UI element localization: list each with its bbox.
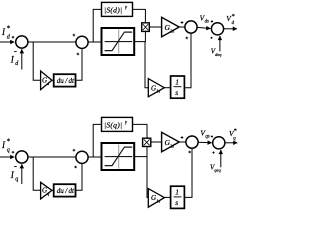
wire Vq* output arrow [225,142,237,144]
wire tap up to |S(d)| block [93,9,101,42]
wire Vdeq arrow into S4d [219,36,221,51]
block du/dt (q) [54,184,76,196]
svg-text:s: s [175,88,178,97]
wire saturation output to multiplier [134,31,145,41]
wire Gd to du/dt [52,79,54,81]
wire G2d to S3d [179,26,185,28]
gain G2q triangle [162,132,180,152]
minus sign at summing junction S1q [14,166,17,168]
svg-text:*: * [232,13,235,20]
wire saturation output to multiplier (q) [134,147,147,157]
wire multiplier to G2d triangle [149,26,161,28]
wire S3q to S4q arrow [198,141,211,143]
plus sign at summing junction S1q [12,151,15,154]
plus sign top-left of S2q [73,149,76,152]
minus sign at summing junction S1d [14,51,17,53]
svg-text:1: 1 [175,78,179,87]
wire S2q to saturation block [88,156,101,158]
wire G1q to integrator [164,196,170,198]
summing junction S4q [213,137,225,149]
svg-text:s: s [175,198,178,207]
svg-text:deq: deq [215,52,222,57]
wire Id* input arrow [0,41,14,43]
node Iq label [10,170,18,183]
svg-text:du / dt: du / dt [57,77,75,85]
svg-text:*: * [7,138,11,146]
wire tap down to Gd triangle [33,42,40,80]
plus sign bottom of S2q [74,166,77,169]
node Vqeq label [210,163,222,172]
plus sign bottom-left of S4d [210,37,212,39]
svg-text:q: q [15,177,18,183]
svg-text:1: 1 [175,188,179,197]
plus sign at summing junction S1d [12,36,15,39]
wire Vqeq arrow into S4q [220,150,222,167]
svg-text:*: * [234,128,237,135]
node Vq* output label [229,128,237,142]
summing junction S2d [76,36,88,48]
svg-text:|S(d)|: |S(d)| [104,5,122,14]
wire tap up to |S(q)| block [93,124,101,157]
gain G1d triangle [148,79,164,97]
plus sign left of S3d [181,21,184,24]
node Vdeq label [211,48,222,57]
summing junction S3d [185,21,197,33]
svg-text:2s: 2s [170,143,174,148]
gain G1q triangle [148,189,164,208]
multiplier X box (q) [143,138,151,146]
wire du/dt up to S2q [76,164,83,191]
svg-text:qs: qs [205,135,209,140]
block integrator 1/s (q) [171,186,185,208]
svg-text:du / dt: du / dt [57,187,75,195]
node Vds label [200,13,209,24]
plus sign top-left of S4q [211,135,213,137]
wire integrator up to S3d [184,33,191,87]
node Iq* label [1,138,11,154]
plus sign bottom of S3q [188,151,191,154]
wire G1d to integrator [164,87,170,89]
wire Iq* input arrow [0,156,14,158]
plus sign top-left of S4d [211,20,213,22]
wire Vd* output arrow [224,28,237,30]
wire tap down to Gq triangle [33,157,40,190]
wire |S(q)| to multiplier [133,124,148,138]
svg-text:q: q [7,147,10,153]
svg-text:1s: 1s [156,89,160,94]
node Vqs label [200,129,209,140]
block |S(q)|^gamma [102,117,133,131]
svg-text:|S(q)|: |S(q)| [104,120,122,129]
wire du/dt up to S2d [76,49,83,81]
wire multiplier to G2q triangle [151,141,162,143]
summing junction S2q [76,151,88,163]
multiplier X box (d) [142,23,150,32]
block du/dt [54,74,76,86]
svg-text:G: G [151,84,156,92]
summing junction S3q [186,136,198,148]
plus sign bottom of S3d [186,37,189,40]
summing junction S1d [16,36,28,48]
plus sign left of S3q [181,136,184,139]
gain G2d triangle [162,17,180,37]
wire Gq to du/dt [52,189,54,191]
summing junction S4d [211,23,223,35]
wire Id feedback arrow [21,49,23,69]
wire S1q to S2q [28,156,76,158]
wire S3d to S4d arrow [197,27,210,28]
svg-text:1s: 1s [156,198,160,203]
summing junction S1q [16,151,28,163]
block integrator 1/s (d) [171,76,185,98]
wire S2d to saturation block [88,41,101,43]
svg-text:2s: 2s [170,28,174,33]
node Id label [10,55,19,67]
node Id* label [1,25,11,41]
block saturation sat(Sq) [102,143,135,170]
wire tap from sat output down to G1d [145,42,148,88]
block |S(d)|^gamma [102,2,133,16]
wire |S(d)| to multiplier [133,9,146,23]
svg-text:ds: ds [205,20,209,25]
wire G2q to S3q [179,141,186,143]
gain Gd triangle [41,71,52,90]
plus sign top-left of S2d [73,34,76,37]
svg-text:qeq: qeq [214,168,221,173]
gain Gq triangle [41,182,52,199]
plus sign bottom of S2d [77,53,80,56]
wire integrator up to S3q [184,148,192,197]
wire Iq feedback arrow [21,164,23,184]
wire tap from sat output down to G1q [147,157,148,198]
node Vd* output label [226,13,235,26]
block saturation sat(Sd) [102,28,135,55]
svg-text:G: G [151,194,156,202]
wire S1d to S2d [28,41,76,43]
plus sign bottom-left of S4q [212,152,214,154]
svg-text:*: * [7,25,11,33]
